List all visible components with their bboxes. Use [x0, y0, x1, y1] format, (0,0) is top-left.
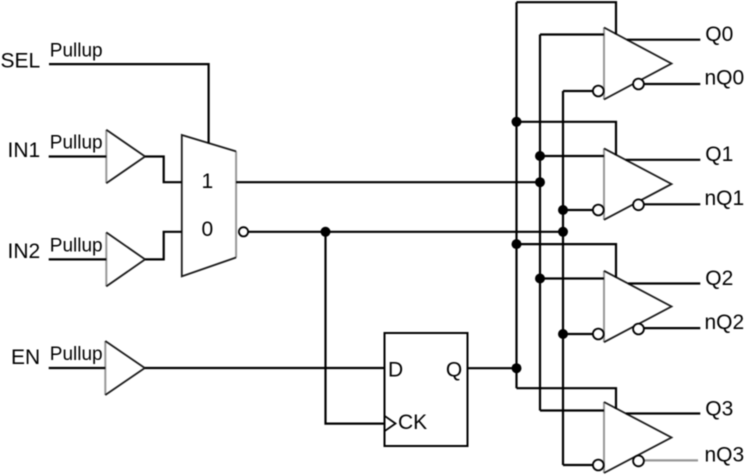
svg-text:SEL: SEL	[1, 50, 41, 73]
svg-text:IN2: IN2	[8, 240, 41, 263]
svg-text:nQ1: nQ1	[705, 187, 745, 210]
svg-text:nQ2: nQ2	[705, 311, 745, 334]
svg-text:nQ0: nQ0	[705, 67, 745, 90]
svg-text:Pullup: Pullup	[50, 133, 103, 154]
svg-text:Pullup: Pullup	[50, 236, 103, 257]
svg-text:Pullup: Pullup	[50, 344, 103, 365]
svg-text:D: D	[388, 359, 403, 382]
svg-text:EN: EN	[11, 346, 40, 369]
svg-text:Q0: Q0	[705, 23, 733, 46]
svg-text:0: 0	[202, 218, 214, 241]
svg-text:Q: Q	[446, 359, 462, 382]
svg-text:1: 1	[202, 170, 214, 193]
svg-text:Q2: Q2	[705, 267, 733, 290]
svg-text:nQ3: nQ3	[705, 443, 745, 466]
svg-text:CK: CK	[398, 411, 427, 434]
svg-text:Q3: Q3	[705, 397, 733, 420]
svg-text:Q1: Q1	[705, 143, 733, 166]
svg-text:Pullup: Pullup	[50, 40, 103, 61]
svg-text:IN1: IN1	[8, 139, 41, 162]
